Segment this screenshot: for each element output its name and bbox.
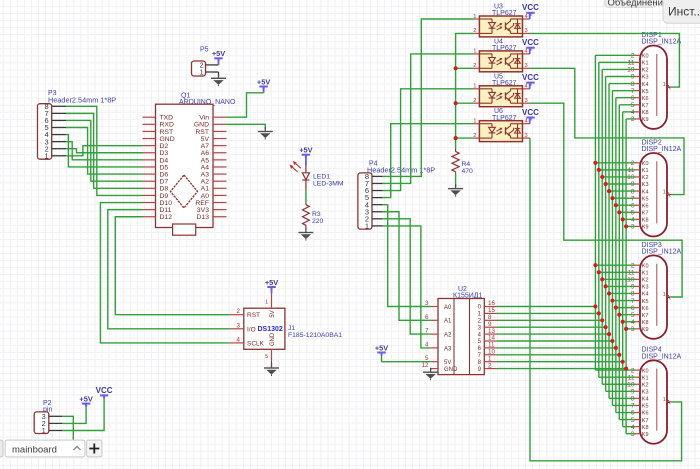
svg-text:D11: D11 <box>160 207 172 214</box>
pin stub Q1 left GND <box>143 138 156 140</box>
wire K3 bus vertical <box>605 77 607 392</box>
svg-text:A2: A2 <box>201 179 210 186</box>
wire U2 out 2 to K2 <box>497 319 602 321</box>
pin stub U5 pin2 <box>474 102 480 104</box>
pin stub DISP2 A <box>667 194 672 196</box>
wire P2 pin2 to +5V <box>62 406 86 423</box>
pin stub P4 pin 8 <box>372 175 383 177</box>
svg-text:Инст...: Инст... <box>668 4 700 18</box>
svg-text:5: 5 <box>265 354 268 360</box>
svg-text:2: 2 <box>200 63 204 70</box>
pin stub U4 pin2 <box>474 67 480 69</box>
wire K3 to DISP4 <box>606 390 636 392</box>
junction K7 DISP3 <box>617 313 621 317</box>
pin stub Q1 left D7 <box>143 180 156 182</box>
pin stub DISP4 K8 <box>636 426 641 428</box>
svg-text:K8: K8 <box>642 425 649 431</box>
pin stub Q1 right A2 <box>213 180 227 182</box>
wire R4 to ground <box>455 174 457 187</box>
svg-text:LED-3MM: LED-3MM <box>313 181 344 188</box>
pin stub DISP2 K7 <box>636 211 641 213</box>
junction K7 DISP2 <box>617 210 621 214</box>
power VCC U4 <box>522 38 539 51</box>
svg-text:5V: 5V <box>444 360 451 366</box>
pin stub P3 pin 5 <box>52 127 66 129</box>
svg-text:GND: GND <box>270 332 276 346</box>
pin stub P3 pin 1 <box>52 155 66 157</box>
wire K0 to DISP4 <box>595 369 635 371</box>
pin stub DISP1 K1 <box>636 61 641 63</box>
junction K8 U2 <box>621 360 625 364</box>
svg-text:3: 3 <box>425 300 429 307</box>
pin stub DISP3 K1 <box>636 271 641 273</box>
diode LED1 LED-3MM <box>290 161 344 190</box>
pin stub U2 out 2 <box>484 319 497 321</box>
svg-text:12: 12 <box>422 362 429 369</box>
pin stub DISP4 A <box>667 401 672 403</box>
svg-text:VCC: VCC <box>96 386 113 395</box>
svg-text:10: 10 <box>627 381 635 388</box>
svg-text:R4: R4 <box>462 161 471 168</box>
svg-text:220: 220 <box>312 218 324 225</box>
pin stub P3 pin 7 <box>52 112 66 114</box>
svg-text:3V3: 3V3 <box>197 207 209 214</box>
pin stub P5 pin2 <box>206 64 219 66</box>
wire U4 pin2 tap <box>456 67 474 69</box>
wire U2 GND <box>430 369 432 371</box>
wire P4 pin7 to U4 pin1 <box>383 54 474 184</box>
pin stub Q1 right A1 <box>213 187 227 189</box>
wire K6 to DISP1 <box>616 97 636 99</box>
wire U6 pin2 tap <box>456 137 474 139</box>
wire P3.5-D6 <box>66 128 143 175</box>
pin stub Q1 right A4 <box>213 166 227 168</box>
pin stub DISP4 K3 <box>636 390 641 392</box>
svg-text:6: 6 <box>631 410 635 417</box>
svg-text:A3: A3 <box>201 171 210 178</box>
svg-text:K2: K2 <box>642 175 649 181</box>
pin stub U2 out 1 <box>484 312 497 314</box>
svg-text:K0: K0 <box>642 263 649 269</box>
wire P3.3-D4 <box>66 142 143 160</box>
wire K7 bus vertical <box>618 105 620 420</box>
svg-text:D8: D8 <box>160 186 169 193</box>
junction K5 DISP3 <box>610 298 614 302</box>
wire GND-Q1 <box>227 124 266 129</box>
svg-text:DISP_IN12A: DISP_IN12A <box>642 249 682 256</box>
pin stub U2 5V <box>431 361 438 363</box>
svg-text:D4: D4 <box>160 157 169 164</box>
svg-text:K0: K0 <box>642 161 649 167</box>
pin stub P5 pin1 <box>206 71 219 73</box>
junction K3 DISP2 <box>604 182 608 186</box>
svg-text:Header2.54mm 1*8P: Header2.54mm 1*8P <box>48 96 116 105</box>
pin stub DISP2 K3 <box>636 183 641 185</box>
wire K4 bus vertical <box>608 84 610 399</box>
svg-text:K6: K6 <box>642 203 649 209</box>
wire K2 bus vertical <box>601 69 603 384</box>
pin stub DISP2 K8 <box>636 218 641 220</box>
svg-text:R3: R3 <box>312 211 321 218</box>
pin stub DISP1 K3 <box>636 76 641 78</box>
svg-text:LED1: LED1 <box>313 174 330 181</box>
junction K5 DISP2 <box>610 196 614 200</box>
pin stub U2 out 8 <box>484 361 497 363</box>
pin stub J1 5V top <box>271 294 273 309</box>
junction K9 U2 <box>624 367 628 371</box>
svg-text:TXD: TXD <box>160 115 174 122</box>
pin stub DISP2 K6 <box>636 204 641 206</box>
svg-text:7: 7 <box>425 328 429 335</box>
power +5V LED <box>299 146 312 158</box>
svg-text:VCC: VCC <box>522 73 539 82</box>
nixie DISP3 DISP_IN12A <box>640 242 682 339</box>
power VCC P2 <box>96 386 113 399</box>
wire P3.1-D2 <box>66 146 143 156</box>
wire P4 pin6 to U5 pin1 <box>383 89 474 191</box>
pin stub DISP1 A <box>667 86 672 88</box>
svg-text:A2: A2 <box>444 333 452 339</box>
svg-text:GND: GND <box>444 367 458 373</box>
svg-text:3: 3 <box>631 326 635 333</box>
svg-text:D5: D5 <box>160 164 169 171</box>
pin stub DISP1 K4 <box>636 83 641 85</box>
svg-text:A6: A6 <box>201 150 210 157</box>
pin stub Q1 right A6 <box>213 152 227 154</box>
pin stub U2 A3 <box>431 347 438 349</box>
pin stub P4 pin 1 <box>372 225 383 227</box>
svg-text:Объединени: Объединени <box>608 0 663 8</box>
pin stub U6 pin2 <box>474 137 480 139</box>
pin stub Q1 left D3 <box>143 152 156 154</box>
pin stub DISP3 K5 <box>636 300 641 302</box>
power +5V P5 <box>212 49 225 61</box>
svg-text:K7: K7 <box>642 103 649 109</box>
pin stub DISP2 K0 <box>636 162 641 164</box>
junction K5 U2 <box>610 339 614 343</box>
pin stub Q1 left D11 <box>143 209 156 211</box>
pin stub DISP2 K5 <box>636 197 641 199</box>
svg-text:K1: K1 <box>642 375 649 381</box>
svg-text:K0: K0 <box>642 368 649 374</box>
pin stub DISP3 K7 <box>636 314 641 316</box>
connector P5 <box>192 47 209 77</box>
pin stub U2 out 5 <box>484 340 497 342</box>
junction U6 pin2 <box>454 136 458 140</box>
wire K6 bus vertical <box>615 98 617 413</box>
svg-text:K3: K3 <box>642 75 649 81</box>
svg-text:GND: GND <box>194 122 209 129</box>
ui tab mainboard <box>5 440 85 457</box>
pin stub J1 RST <box>230 314 244 316</box>
junction K7 U2 <box>617 353 621 357</box>
pin stub Q1 right A0 <box>213 194 227 196</box>
svg-text:4: 4 <box>425 341 429 348</box>
pin stub DISP3 K0 <box>636 264 641 266</box>
wire K9 to DISP4 <box>626 433 635 435</box>
svg-text:I/O: I/O <box>247 326 256 333</box>
svg-text:D6: D6 <box>160 171 169 178</box>
pin stub DISP3 A <box>667 296 672 298</box>
pin stub Q1 left D8 <box>143 187 156 189</box>
pin stub DISP4 K1 <box>636 376 641 378</box>
svg-text:6: 6 <box>631 305 635 312</box>
junction U4 pin2 <box>454 66 458 70</box>
svg-text:1: 1 <box>45 151 49 160</box>
junction K0 U2 <box>593 304 597 308</box>
ground Q1 <box>258 127 273 140</box>
svg-text:5V: 5V <box>270 310 276 317</box>
svg-text:470: 470 <box>462 168 474 175</box>
wire K4 to DISP1 <box>609 83 635 85</box>
power +5V J1 <box>265 278 278 290</box>
ground P5 <box>211 74 226 87</box>
pin stub U2 A0 <box>431 306 438 308</box>
nixie DISP1 DISP_IN12A <box>640 32 682 129</box>
pin stub DISP1 K2 <box>636 68 641 70</box>
wire U3.2 U4.2 U5.2 U6.2 to R4 <box>456 33 474 148</box>
pin stub Q1 left RXD <box>143 123 156 125</box>
svg-text:DS1302: DS1302 <box>258 326 283 333</box>
wire K2 to DISP1 <box>602 68 635 70</box>
power +5V P2 <box>79 394 92 406</box>
ground R3 <box>298 228 313 241</box>
wire K7 to DISP2 <box>619 211 635 213</box>
junction K1 U2 <box>597 311 601 315</box>
junction K8 DISP3 <box>621 320 625 324</box>
ground U2 <box>423 368 438 381</box>
svg-text:K4: K4 <box>642 292 649 298</box>
pin stub U3 pin1 <box>474 18 480 20</box>
wire P5 pin1 to ground <box>218 72 220 77</box>
wire K9 to DISP1 <box>626 118 635 120</box>
svg-text:11: 11 <box>628 269 635 276</box>
wire K2 to DISP3 <box>602 278 635 280</box>
pin stub DISP1 K5 <box>636 90 641 92</box>
pin stub DISP2 K4 <box>636 190 641 192</box>
wire U2 out 8 to K8 <box>497 361 623 363</box>
pin stub P4 pin 4 <box>372 204 383 206</box>
svg-text:K8: K8 <box>642 320 649 326</box>
svg-text:RST: RST <box>247 312 260 319</box>
wire K6 to DISP3 <box>616 307 636 309</box>
wire K5 to DISP2 <box>612 197 635 199</box>
wire K0 to DISP1 <box>595 54 635 56</box>
wire K1 to DISP4 <box>599 376 636 378</box>
wire U5 pin3 to DISP3 anode <box>530 103 682 297</box>
pin stub J1 I/O <box>230 328 244 330</box>
wire K9 bus vertical <box>625 119 627 434</box>
svg-text:K6: K6 <box>642 411 649 417</box>
wire K9 to DISP3 <box>626 328 635 330</box>
optocoupler U4 TLP627 <box>473 38 528 71</box>
pin stub Q1 left D9 <box>143 194 156 196</box>
junction K4 U2 <box>607 332 611 336</box>
svg-text:D9: D9 <box>160 193 169 200</box>
wire K4 to DISP2 <box>609 190 635 192</box>
pin stub Q1 right 3V3 <box>213 209 227 211</box>
ui panel top right 2 <box>663 0 700 23</box>
junction U5 pin2 <box>454 101 458 105</box>
pin stub Q1 left D6 <box>143 173 156 175</box>
svg-text:9: 9 <box>631 389 635 396</box>
wire K0 bus vertical <box>594 55 596 370</box>
svg-text:+5V: +5V <box>79 394 92 403</box>
svg-text:1: 1 <box>663 397 666 403</box>
svg-text:K1: K1 <box>642 168 649 174</box>
svg-text:+5V: +5V <box>299 146 312 155</box>
pin stub P2 pin 1 <box>49 430 63 432</box>
junction K2 DISP3 <box>600 277 604 281</box>
pin stub U6 pin3 <box>523 137 531 139</box>
junction K3 DISP3 <box>604 284 608 288</box>
svg-text:5: 5 <box>631 312 635 319</box>
ground J1 <box>264 364 279 377</box>
wire K3 to DISP3 <box>606 285 636 287</box>
power VCC U6 <box>522 108 539 121</box>
pin stub J1 SCLK <box>230 342 244 344</box>
pin stub P2 pin 3 <box>49 415 63 417</box>
svg-text:VCC: VCC <box>522 108 539 117</box>
wire P4 pin4 to U2 A0 <box>383 205 431 307</box>
svg-text:7: 7 <box>631 195 635 202</box>
svg-text:2: 2 <box>488 362 492 369</box>
svg-text:D7: D7 <box>160 179 169 186</box>
svg-text:K7: K7 <box>642 418 649 424</box>
nixie DISP2 DISP_IN12A <box>640 139 682 236</box>
pin stub P3 pin 3 <box>52 141 66 143</box>
resistor R3 220 <box>303 203 324 231</box>
pin stub DISP4 K7 <box>636 419 641 421</box>
junction K3 U2 <box>604 325 608 329</box>
svg-text:3: 3 <box>237 322 241 329</box>
pin stub DISP2 K2 <box>636 176 641 178</box>
wire K5 to DISP3 <box>612 300 635 302</box>
pin stub Q1 left D4 <box>143 159 156 161</box>
wire U6 pin3 to DISP4 anode <box>530 138 682 461</box>
svg-text:K6: K6 <box>642 306 649 312</box>
svg-text:A1: A1 <box>201 186 210 193</box>
svg-text:K0: K0 <box>642 54 649 60</box>
wire K5 bus vertical <box>611 91 613 406</box>
junction K9 DISP3 <box>624 327 628 331</box>
svg-text:1: 1 <box>663 292 666 298</box>
svg-text:K6: K6 <box>642 96 649 102</box>
svg-text:1: 1 <box>265 300 268 306</box>
pin stub Q1 left D5 <box>143 166 156 168</box>
wire P3.2-D3 <box>66 149 143 153</box>
optocoupler U6 TLP627 <box>473 108 528 141</box>
wire U5 pin2 tap <box>456 102 474 104</box>
svg-text:RST: RST <box>160 129 174 136</box>
svg-text:K2: K2 <box>642 278 649 284</box>
wire K0 to DISP2 <box>595 162 635 164</box>
wire LED1-R3 <box>305 190 307 203</box>
wire P4 pin1 to U2 A3 <box>383 226 431 348</box>
wire K8 to DISP1 <box>623 111 636 113</box>
pin stub DISP2 K9 <box>636 225 641 227</box>
wire K8 to DISP2 <box>623 218 636 220</box>
svg-text:K5: K5 <box>642 89 649 95</box>
pin stub U2 out 3 <box>484 326 497 328</box>
svg-text:DISP_IN12A: DISP_IN12A <box>642 354 682 361</box>
junction K9 DISP2 <box>624 224 628 228</box>
pin stub DISP3 K8 <box>636 321 641 323</box>
wire K1 to DISP2 <box>599 169 636 171</box>
pin stub U6 pin4 <box>523 123 531 125</box>
junction K2 DISP2 <box>600 175 604 179</box>
svg-text:A1: A1 <box>444 319 452 325</box>
ground R4 <box>448 184 463 197</box>
svg-text:1: 1 <box>200 70 204 77</box>
svg-text:RST: RST <box>195 129 209 136</box>
pin stub DISP1 K9 <box>636 118 641 120</box>
pin stub U6 pin1 <box>474 123 480 125</box>
svg-text:K5: K5 <box>642 196 649 202</box>
rtc J1 DS1302 F185-1210A0BA1 <box>244 308 342 349</box>
ui tab sliver bottom left <box>0 440 3 457</box>
svg-text:A0: A0 <box>201 193 210 200</box>
svg-text:K9: K9 <box>642 225 649 231</box>
svg-text:A5: A5 <box>201 157 210 164</box>
connector P2 pin <box>34 400 52 435</box>
pin stub Q1 left D12 <box>143 216 156 218</box>
power VCC U5 <box>522 73 539 86</box>
svg-text:P5: P5 <box>200 47 209 54</box>
pin stub Q1 left D10 <box>143 202 156 204</box>
junction K4 DISP2 <box>607 189 611 193</box>
wire U2 out 7 to K7 <box>497 354 619 356</box>
svg-text:11: 11 <box>628 167 635 174</box>
svg-text:Vin: Vin <box>199 115 209 122</box>
svg-text:+5V: +5V <box>375 343 388 352</box>
pin stub P2 pin 2 <box>49 422 63 424</box>
wire U2 out 6 to K6 <box>497 347 616 349</box>
pin stub DISP3 K9 <box>636 328 641 330</box>
wire D12-RST J1 <box>115 217 229 315</box>
pin stub P4 pin 7 <box>372 182 383 184</box>
pin stub P4 pin 5 <box>372 197 383 199</box>
pin stub U3 pin3 <box>523 32 531 34</box>
pin stub DISP4 K4 <box>636 397 641 399</box>
svg-text:A4: A4 <box>201 164 210 171</box>
wire P4 pin3 to U2 A1 <box>383 212 431 321</box>
wire K8 bus vertical <box>622 112 624 427</box>
pin stub DISP3 K2 <box>636 278 641 280</box>
wire K6 to DISP4 <box>616 412 636 414</box>
svg-text:5: 5 <box>631 417 635 424</box>
pin stub DISP1 K0 <box>636 54 641 56</box>
pin stub DISP3 K4 <box>636 292 641 294</box>
pin stub U5 pin3 <box>523 102 531 104</box>
wire D10-SCLK J1 <box>100 203 229 343</box>
svg-text:J1: J1 <box>288 325 295 332</box>
connector P4 Header2.54mm 1*8P <box>358 160 435 230</box>
wire U3 pin3 to DISP1 anode <box>530 33 679 87</box>
svg-text:K5: K5 <box>642 404 649 410</box>
pin stub U4 pin3 <box>523 67 531 69</box>
wire P3.7-D8 <box>66 113 143 188</box>
svg-text:K2: K2 <box>642 68 649 74</box>
svg-text:1: 1 <box>365 221 369 230</box>
pin stub P3 pin 6 <box>52 119 66 121</box>
wire K8 to DISP4 <box>623 426 636 428</box>
pin stub DISP2 K1 <box>636 169 641 171</box>
wire U2 out 3 to K3 <box>497 326 606 328</box>
svg-text:REF: REF <box>195 200 209 207</box>
resistor R4 470 <box>452 149 473 175</box>
svg-text:VCC: VCC <box>522 3 539 12</box>
